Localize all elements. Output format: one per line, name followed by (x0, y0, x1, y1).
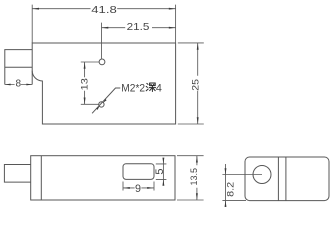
svg-text:8: 8 (16, 79, 22, 90)
svg-text:41.8: 41.8 (91, 5, 117, 16)
svg-text:9: 9 (135, 183, 141, 195)
svg-text:4: 4 (156, 82, 162, 94)
svg-text:M2*2: M2*2 (121, 82, 145, 94)
svg-text:13: 13 (79, 78, 90, 90)
svg-text:13.5: 13.5 (189, 168, 200, 186)
svg-text:21.5: 21.5 (127, 22, 150, 33)
svg-text:5: 5 (154, 169, 166, 175)
svg-text:8.2: 8.2 (225, 182, 236, 197)
svg-text:25: 25 (191, 79, 202, 91)
